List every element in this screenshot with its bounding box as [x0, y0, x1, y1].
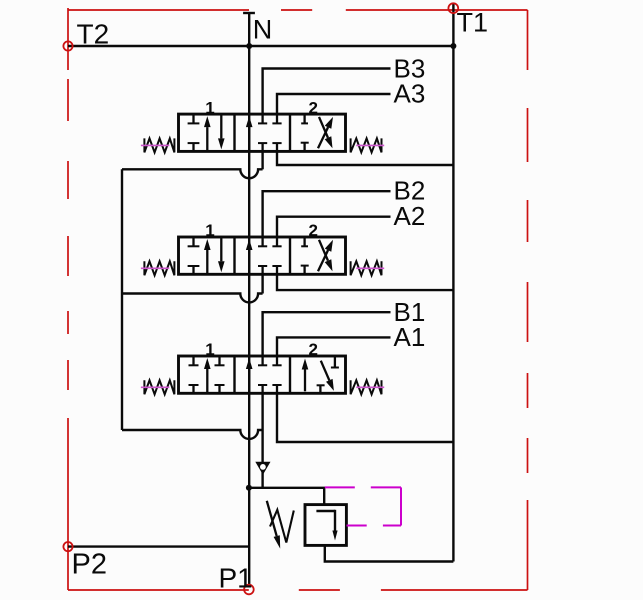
label T2 [77, 19, 110, 50]
spring V2 right [351, 261, 385, 275]
wire port B2 [263, 191, 391, 237]
node N tick mark [243, 12, 255, 14]
wire port P2 line [68, 545, 249, 547]
spring V3 right [351, 138, 385, 152]
wire parallel gallery vertical [121, 169, 123, 430]
label B2 [394, 176, 426, 206]
wire relief outlet to T1 [325, 545, 454, 561]
svg-text:N: N [253, 15, 272, 45]
pin label 2 valve V2 [309, 221, 318, 240]
label N [253, 15, 272, 45]
wire port A3 [277, 94, 391, 114]
wire tank return section 3 [277, 151, 453, 165]
valve V3 position 1 spool paths [188, 114, 225, 151]
relief valve RV1 adjustable spring [267, 501, 294, 549]
check valve CV1 [255, 462, 270, 475]
svg-text:P2: P2 [72, 549, 107, 581]
svg-text:2: 2 [309, 98, 318, 117]
label B1 [394, 297, 426, 327]
wire port A1 [277, 337, 391, 356]
wire tank return section 2 [277, 274, 453, 290]
valve V2 body outline [179, 237, 346, 274]
wire T1 return vertical [452, 4, 454, 562]
svg-text:T2: T2 [77, 19, 110, 50]
pin label 1 valve V1 [205, 340, 214, 359]
label T1 [457, 8, 489, 38]
spring V3 left [141, 138, 175, 152]
valve V3 position 2 spool paths [301, 114, 333, 151]
wire P junction to relief valve [249, 488, 324, 505]
pilot line dashed to relief valve [325, 487, 401, 525]
label P1 [219, 563, 253, 594]
svg-text:A2: A2 [394, 201, 426, 231]
junction P inlet node [246, 485, 252, 491]
valve V3 body outline [179, 114, 346, 151]
wire tank return section 1 [277, 393, 453, 442]
svg-text:T1: T1 [457, 8, 489, 38]
label A3 [394, 79, 426, 109]
valve V1 position 1 spool paths [189, 356, 225, 393]
label A1 [394, 322, 426, 352]
valve V2 neutral centre passage [246, 237, 282, 274]
svg-text:1: 1 [205, 340, 214, 359]
svg-text:2: 2 [309, 221, 318, 240]
wire port B3 [263, 69, 391, 115]
wire gallery branch with crossover hop section 2 [122, 274, 263, 302]
wire gallery branch with crossover hop section 3 [122, 151, 263, 178]
svg-text:A1: A1 [394, 322, 426, 352]
pin label 1 valve V2 [205, 221, 214, 240]
valve V3 neutral centre passage [246, 114, 282, 151]
wire port B1 [263, 312, 391, 356]
wire port A2 [277, 217, 391, 237]
pin label 1 valve V3 [205, 98, 214, 117]
pin label 2 valve V3 [309, 98, 318, 117]
label A2 [394, 201, 426, 231]
junction T1 at tank line [450, 43, 456, 49]
spring V2 left [141, 261, 175, 275]
valve V1 body outline [179, 356, 346, 393]
wire neutral line N vertical [248, 13, 250, 585]
valve V1 neutral centre passage [246, 356, 282, 393]
spring V1 left [141, 380, 175, 394]
port T2 marker [63, 41, 72, 50]
svg-text:1: 1 [205, 98, 214, 117]
label B3 [394, 53, 426, 83]
junction N at tank line [246, 43, 252, 49]
svg-text:1: 1 [205, 221, 214, 240]
spring V1 right [351, 380, 385, 394]
valve V2 position 2 spool paths [301, 237, 333, 274]
valve V2 position 1 spool paths [188, 237, 225, 274]
svg-text:P1: P1 [219, 563, 253, 594]
wire gallery branch with crossover hop section 1 [122, 393, 263, 439]
wire tank top line T2-T1 [68, 45, 453, 47]
port P1 marker [244, 585, 254, 595]
svg-text:2: 2 [309, 340, 318, 359]
valve V1 position 2 spool paths [302, 356, 339, 393]
relief valve RV1 flow path arrow [316, 510, 337, 541]
relief valve RV1 body [305, 505, 346, 546]
label P2 [72, 549, 107, 581]
wire carryover down to check valve [261, 430, 263, 488]
pin label 2 valve V1 [309, 340, 318, 359]
svg-text:A3: A3 [394, 79, 426, 109]
port P2 marker [63, 542, 72, 551]
port T1 marker [448, 3, 458, 13]
